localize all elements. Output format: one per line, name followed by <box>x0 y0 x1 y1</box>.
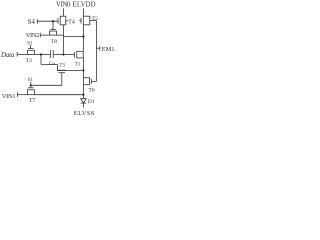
diode D1 anode lead <box>82 95 84 99</box>
transistor T4 label tick <box>66 20 68 22</box>
wire node column vertical (T4 bottom to gate-node dot) <box>63 25 65 55</box>
diode D1 label <box>88 99 95 105</box>
transistor T7 gate bar <box>28 87 34 89</box>
node S1 upper label <box>27 42 33 47</box>
svg-text:ELVSS: ELVSS <box>74 110 95 117</box>
svg-text:EM1: EM1 <box>102 46 115 53</box>
node junction dot B (T1 gate node) <box>62 53 64 55</box>
node junction dot rail/T1-drain <box>82 35 84 37</box>
wire T7 output to anode dot <box>35 94 84 96</box>
node EM line vertical <box>96 21 98 82</box>
wire S1 stub down to dot <box>30 82 32 86</box>
diode D1 triangle <box>81 99 87 103</box>
wire T1 drain vertical <box>82 37 84 52</box>
svg-text:VIN1: VIN1 <box>2 93 16 100</box>
svg-text:T6: T6 <box>88 88 94 94</box>
transistor T1 label <box>75 61 81 67</box>
svg-text:D1: D1 <box>88 99 95 105</box>
wire T3 left riser <box>56 64 58 70</box>
transistor T2 label <box>26 58 32 64</box>
wire VIN1 horizontal to T7 <box>17 94 27 96</box>
wire Data tick bar <box>16 52 18 57</box>
node VIN1 label <box>2 93 16 100</box>
svg-text:VIN2: VIN2 <box>26 32 39 39</box>
transistor T7 label <box>29 98 36 104</box>
wire gate-node to T1 gate <box>64 54 75 56</box>
wire S1 line to T3 gate <box>31 84 62 86</box>
wire cap to gate-node dot <box>53 54 63 56</box>
transistor T5 gate bar <box>80 18 82 24</box>
node junction dot A (data/cap) <box>40 53 42 55</box>
transistor T2 gate bar <box>28 47 34 49</box>
svg-text:Data: Data <box>0 52 15 59</box>
transistor T3 channel thick bar <box>57 69 66 71</box>
transistor T6 label <box>88 88 94 94</box>
svg-text:VIN0: VIN0 <box>56 1 71 8</box>
wire S4 tick bar <box>36 19 38 24</box>
node VIN0 label <box>56 1 71 8</box>
transistor T1 body <box>77 51 83 58</box>
svg-text:T1: T1 <box>75 61 81 67</box>
node EM1 label <box>102 46 115 53</box>
node junction dot T1-source/T3/T6 <box>82 69 84 71</box>
node ELVDD label <box>72 1 95 8</box>
node ELVSS label <box>74 110 95 117</box>
transistor T7 body <box>28 90 35 95</box>
transistor T5 body <box>83 16 90 25</box>
transistor T4 gate bar <box>57 18 59 24</box>
wire VIN0 lead down to T4 <box>63 8 65 16</box>
transistor T8 gate bar <box>50 29 56 31</box>
wire rail to T1 drain <box>64 36 84 38</box>
transistor T4 label <box>68 20 75 26</box>
transistor T5 label <box>92 16 98 22</box>
wire T3 gate lead down to S1 line <box>61 73 63 86</box>
wire ELVDD lead down to T5 <box>83 8 85 16</box>
transistor T6 body <box>83 78 89 85</box>
wire S4 horizontal to T4 gate <box>37 20 58 22</box>
transistor T1 gate bar <box>74 52 76 58</box>
node junction dot S1/T7 gate <box>30 84 32 86</box>
svg-text:T2: T2 <box>26 58 32 64</box>
wire Data horizontal to T2 <box>17 54 27 56</box>
wire node A to T3 left <box>41 63 57 65</box>
transistor T2 body <box>28 50 35 54</box>
svg-text:T3: T3 <box>59 63 65 68</box>
wire S4 dot down to T8 gate <box>52 21 54 29</box>
svg-text:ELVDD: ELVDD <box>72 1 95 8</box>
wire T6 source down to anode dot <box>82 85 84 95</box>
svg-text:S4: S4 <box>28 19 36 26</box>
wire VIN2 horizontal to T8 <box>40 34 49 36</box>
svg-text:T5: T5 <box>92 16 98 22</box>
svg-text:T4: T4 <box>68 20 75 26</box>
wire T5 drain to EM line <box>90 20 97 22</box>
capacitor Cst left plate <box>49 50 51 58</box>
wire T6 gate to EM line <box>91 80 96 82</box>
svg-text:T7: T7 <box>29 98 36 104</box>
wire T7 gate stub <box>30 85 32 88</box>
transistor T8 label <box>51 39 57 45</box>
node VIN2 label <box>26 32 39 39</box>
transistor T6 gate bar <box>90 79 92 84</box>
transistor T3 label <box>59 63 65 68</box>
node S4 label <box>28 19 36 26</box>
node Data label <box>0 52 15 59</box>
transistor T3 gate bar <box>59 72 66 74</box>
wire S1 stub to T2 gate <box>29 45 31 48</box>
svg-text:T8: T8 <box>51 39 57 45</box>
node junction dot anode <box>82 94 84 96</box>
wire T6 top lead <box>82 70 84 77</box>
wire T1 source down to dot <box>82 58 84 71</box>
capacitor Cst right plate <box>52 50 54 58</box>
wire EM1 tick horizontal <box>97 47 100 49</box>
wire VIN2 tick bar <box>39 33 41 37</box>
wire T2 output to node A dot <box>35 54 51 56</box>
transistor T3 channel on wire <box>57 69 83 71</box>
wire T8 output to node column <box>57 34 64 36</box>
node S1 lower label <box>28 78 34 83</box>
node junction dot S4/T8 gate <box>52 20 54 22</box>
wire D1 cathode lead to ELVSS <box>82 103 84 107</box>
diode D1 cathode bar <box>81 102 87 104</box>
transistor T8 body <box>50 31 57 35</box>
capacitor Cst label <box>49 61 56 67</box>
wire T5 source down to rail <box>82 25 84 37</box>
transistor T5 gate stub <box>79 20 81 22</box>
transistor T4 body <box>60 16 66 25</box>
wire node A down <box>40 55 42 65</box>
wire VIN1 tick bar <box>16 92 18 97</box>
wire EM1 tick bar <box>99 46 101 51</box>
